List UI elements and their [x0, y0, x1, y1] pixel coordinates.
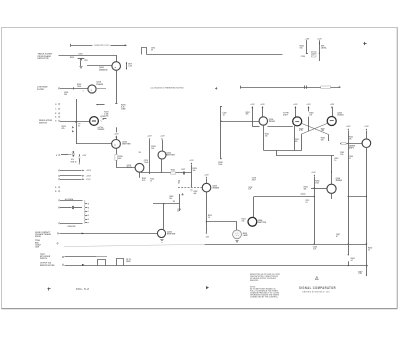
svg-text:1uF: 1uF — [312, 55, 315, 57]
svg-text:EMITTER: EMITTER — [258, 222, 267, 224]
svg-text:56k: 56k — [304, 188, 307, 190]
svg-text:SERIES B MODELS 125: SERIES B MODELS 125 — [302, 291, 330, 293]
svg-text:2N4858: 2N4858 — [212, 187, 219, 190]
svg-text:C221: C221 — [312, 53, 316, 55]
svg-text:2N356: 2N356 — [127, 167, 132, 169]
svg-text:2N4858: 2N4858 — [336, 179, 342, 182]
svg-text:2N3565: 2N3565 — [337, 114, 343, 116]
svg-text:+225V: +225V — [86, 176, 92, 178]
svg-text:4.7: 4.7 — [351, 259, 353, 262]
svg-text:5k: 5k — [177, 211, 179, 213]
svg-text:10k: 10k — [349, 138, 352, 140]
svg-text:CONNECTED TO PIN 7: CONNECTED TO PIN 7 — [94, 45, 110, 47]
svg-text:MEASURED: MEASURED — [250, 279, 259, 282]
svg-text:CONNECTED BY THE CONTROL: CONNECTED BY THE CONTROL — [250, 296, 279, 298]
svg-text:10k: 10k — [300, 47, 303, 49]
svg-text:CR2: CR2 — [84, 60, 87, 62]
svg-text:1: 1 — [316, 278, 317, 280]
svg-text:.01: .01 — [305, 202, 307, 204]
svg-text:1.5k: 1.5k — [340, 154, 343, 156]
svg-text:+300V: +300V — [86, 170, 92, 172]
svg-text:TRIANG: TRIANG — [97, 128, 104, 131]
svg-text:47: 47 — [178, 181, 180, 184]
svg-text:C227: C227 — [181, 169, 185, 171]
svg-text:620: 620 — [295, 141, 298, 143]
svg-text:EMITTER: EMITTER — [166, 154, 175, 156]
svg-text:220: 220 — [64, 94, 67, 96]
svg-text:R222: R222 — [150, 179, 154, 181]
svg-text:2N4858: 2N4858 — [96, 83, 103, 86]
svg-text:47uF: 47uF — [252, 178, 256, 181]
svg-text:1uF: 1uF — [248, 189, 251, 191]
svg-text:10k: 10k — [193, 170, 196, 172]
svg-text:[=] UNLESS OTHERWISE NOTED: [=] UNLESS OTHERWISE NOTED — [151, 88, 185, 90]
svg-text:A A CA204: A A CA204 — [65, 198, 74, 201]
svg-text:CA204 2/4: CA204 2/4 — [67, 225, 75, 228]
svg-text:10k: 10k — [265, 135, 268, 137]
svg-text:10k: 10k — [151, 148, 154, 150]
svg-text:KNOB: KNOB — [35, 236, 41, 238]
svg-text:FIG. 5-2: FIG. 5-2 — [76, 288, 90, 291]
svg-text:-150V: -150V — [86, 179, 92, 181]
svg-text:R226: R226 — [171, 169, 175, 171]
svg-text:C205: C205 — [104, 115, 108, 117]
svg-text:4.7k: 4.7k — [142, 179, 146, 182]
svg-text:100k: 100k — [77, 86, 81, 88]
svg-text:1k: 1k — [334, 160, 336, 162]
svg-text:680: 680 — [118, 158, 121, 160]
svg-text:47k: 47k — [246, 113, 249, 116]
svg-text:2N4858 B: 2N4858 B — [99, 68, 108, 71]
svg-text:4.7k: 4.7k — [299, 129, 302, 132]
svg-text:REMOTE KEYER: REMOTE KEYER — [40, 265, 55, 267]
svg-text:AMPL: AMPL — [349, 146, 355, 149]
svg-text:SWITCH: SWITCH — [39, 123, 47, 125]
svg-text:DETECTOR: DETECTOR — [38, 58, 50, 60]
svg-text:E: E — [88, 219, 89, 221]
svg-text:R281: R281 — [194, 191, 198, 193]
svg-text:47: 47 — [336, 235, 338, 238]
svg-text:D203: D203 — [79, 54, 83, 56]
svg-text:1/2W: 1/2W — [35, 246, 39, 248]
svg-text:R218 1k: R218 1k — [71, 162, 77, 164]
svg-text:LEVEL: LEVEL — [321, 47, 328, 49]
svg-text:SIGNAL COMPARATOR: SIGNAL COMPARATOR — [299, 286, 336, 290]
svg-text:10k: 10k — [242, 220, 245, 222]
svg-text:F: F — [88, 223, 89, 225]
svg-text:R201: R201 — [70, 57, 74, 59]
svg-text:EMITTER: EMITTER — [167, 233, 176, 235]
svg-text:EMITTER: EMITTER — [122, 143, 131, 145]
svg-text:1/4W: 1/4W — [121, 108, 126, 111]
svg-text:56k: 56k — [169, 198, 172, 200]
svg-text:1k: 1k — [150, 180, 152, 182]
svg-text:47: 47 — [78, 124, 80, 127]
svg-text:0.1: 0.1 — [349, 158, 351, 160]
svg-text:1k: 1k — [368, 249, 370, 251]
svg-text:C226: C226 — [301, 56, 305, 58]
svg-text:100k: 100k — [218, 164, 222, 166]
svg-text:1k: 1k — [208, 217, 210, 219]
svg-text:10k: 10k — [309, 114, 312, 116]
svg-text:100k: 100k — [315, 182, 319, 184]
svg-text:1.8k: 1.8k — [321, 130, 324, 132]
svg-text:SWITCH: SWITCH — [40, 258, 48, 260]
svg-text:.01: .01 — [222, 114, 224, 116]
svg-text:47k: 47k — [62, 127, 65, 130]
svg-text:FILTER: FILTER — [37, 89, 44, 91]
svg-text:2.2k: 2.2k — [358, 273, 361, 275]
svg-text:E: E — [56, 155, 57, 157]
svg-text:+12V: +12V — [114, 134, 119, 136]
svg-text:LAMP: LAMP — [243, 234, 249, 237]
svg-text:620: 620 — [321, 139, 324, 141]
svg-text:2N3565: 2N3565 — [269, 121, 275, 123]
